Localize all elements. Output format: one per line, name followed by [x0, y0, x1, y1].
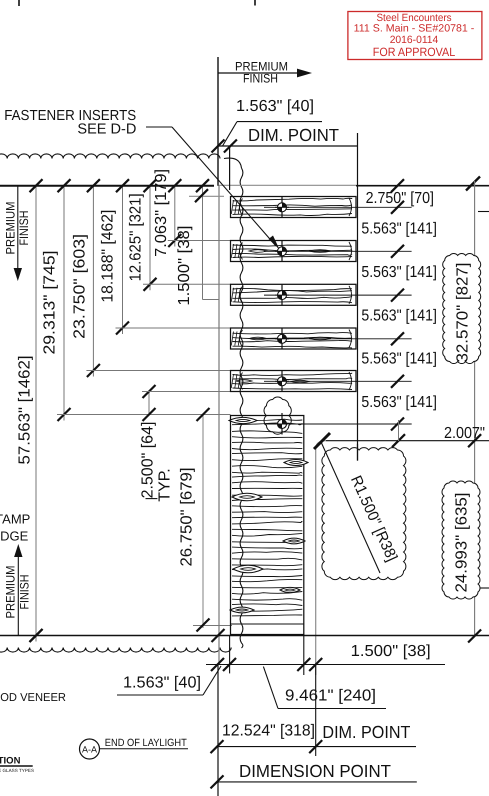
svg-text:111 S. Main - SE#20781 -: 111 S. Main - SE#20781 -	[354, 23, 475, 35]
svg-text:SEE GLASS TYPES: SEE GLASS TYPES	[0, 768, 34, 773]
svg-text:FINISH: FINISH	[243, 72, 278, 86]
svg-text:32.570" [827]: 32.570" [827]	[455, 263, 472, 363]
svg-text:STAMP: STAMP	[0, 512, 30, 527]
svg-text:24.993" [635]: 24.993" [635]	[454, 493, 471, 593]
svg-text:FOR APPROVAL: FOR APPROVAL	[373, 45, 456, 59]
svg-text:1.500" [38]: 1.500" [38]	[176, 226, 193, 306]
svg-text:PREMIUM: PREMIUM	[4, 566, 18, 619]
svg-text:1.563" [40]: 1.563" [40]	[236, 98, 314, 115]
svg-text:A-A: A-A	[82, 745, 97, 755]
svg-text:1.563" [40]: 1.563" [40]	[123, 675, 201, 692]
svg-text:TYP.: TYP.	[157, 468, 174, 502]
svg-text:18.188" [462]: 18.188" [462]	[100, 210, 117, 303]
svg-text:SEE D-D: SEE D-D	[77, 122, 136, 138]
svg-text:SECTION: SECTION	[0, 756, 21, 767]
svg-text:9.461" [240]: 9.461" [240]	[285, 688, 376, 705]
svg-text:END OF LAYLIGHT: END OF LAYLIGHT	[105, 737, 188, 749]
svg-text:5.563" [141]: 5.563" [141]	[361, 307, 437, 324]
svg-text:PREMIUM: PREMIUM	[4, 202, 18, 255]
svg-text:DIM. POINT: DIM. POINT	[322, 722, 410, 742]
svg-text:EDGE: EDGE	[0, 529, 29, 544]
svg-text:23.750" [603]: 23.750" [603]	[72, 234, 89, 339]
svg-text:5.563" [141]: 5.563" [141]	[361, 221, 437, 238]
svg-text:5.563" [141]: 5.563" [141]	[361, 264, 437, 281]
svg-text:DIM. POINT: DIM. POINT	[248, 125, 339, 145]
svg-text:57.563" [1462]: 57.563" [1462]	[17, 356, 34, 465]
svg-text:FINISH: FINISH	[18, 575, 32, 610]
svg-text:1.500" [38]: 1.500" [38]	[351, 643, 431, 660]
svg-text:12.524" [318]: 12.524" [318]	[222, 723, 315, 740]
svg-text:26.750" [679]: 26.750" [679]	[179, 468, 196, 567]
svg-text:WOOD VENEER: WOOD VENEER	[0, 692, 66, 704]
svg-text:2.750" [70]: 2.750" [70]	[366, 190, 434, 207]
svg-text:29.313" [745]: 29.313" [745]	[42, 251, 59, 355]
svg-text:2.500" [64]: 2.500" [64]	[140, 422, 157, 499]
svg-text:7.063" [179]: 7.063" [179]	[153, 169, 170, 257]
svg-text:5.563" [141]: 5.563" [141]	[361, 351, 437, 368]
svg-text:FINISH: FINISH	[17, 211, 31, 246]
svg-text:DIMENSION POINT: DIMENSION POINT	[239, 761, 391, 781]
svg-text:5.563" [141]: 5.563" [141]	[361, 394, 437, 411]
svg-text:12.625" [321]: 12.625" [321]	[127, 193, 144, 281]
svg-text:2.007": 2.007"	[444, 425, 485, 442]
